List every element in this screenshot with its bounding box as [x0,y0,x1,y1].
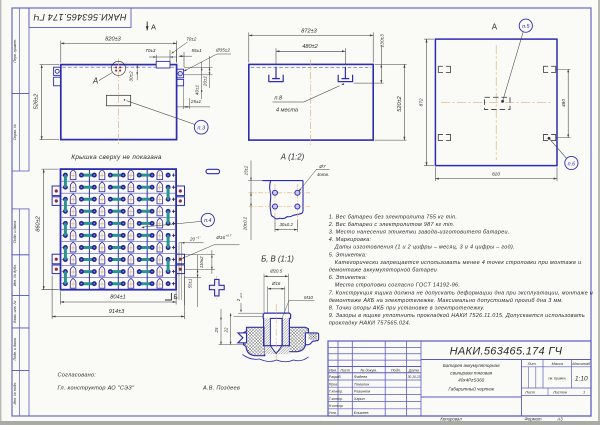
svg-text:40х4PzS360: 40х4PzS360 [458,378,484,383]
dim 480 vertical [556,68,571,70]
svg-text:Фадеев: Фадеев [354,375,367,379]
svg-text:Подп.: Подп. [391,368,401,372]
svg-text:Еникеев: Еникеев [354,411,369,415]
svg-text:Категорически запрещается испо: Категорически запрещается использовать м… [335,260,582,266]
svg-text:Даты изготовления (1 и 2 цифры: Даты изготовления (1 и 2 цифры – месяц, … [334,245,515,251]
svg-text:А3: А3 [556,417,563,422]
right rubber block [288,327,308,351]
svg-text:НАКИ.563465.174 ГЧ: НАКИ.563465.174 ГЧ [450,346,563,358]
svg-text:А: А [151,23,156,32]
svg-text:п.3: п.3 [197,126,206,132]
svg-text:Листов: Листов [552,391,567,395]
dim 820 bottom [434,167,436,181]
strap symbol cross [216,276,218,300]
svg-text:Изм.: Изм. [329,368,337,372]
svg-text:Т.контр.: Т.контр. [329,390,343,394]
dim Ф16 [267,286,269,313]
callout п.6 [565,156,578,169]
serpentine links [64,175,67,187]
svg-text:872±3: 872±3 [301,28,317,34]
svg-text:4 места: 4 места [276,108,298,114]
svg-text:6. Этикетка:: 6. Этикетка: [329,275,367,281]
svg-text:110±2: 110±2 [199,256,204,268]
svg-text:20±1: 20±1 [202,75,207,87]
svg-text:см. примеч.: см. примеч. [548,377,566,381]
svg-text:480±2: 480±2 [302,44,318,50]
left margin stamp boxes [12,8,29,94]
svg-text:4. Маркировка:: 4. Маркировка: [329,237,372,243]
dim 804±1 [60,291,62,304]
svg-text:1: 1 [583,391,585,395]
svg-text:А (1:2): А (1:2) [280,153,305,162]
svg-text:22: 22 [224,327,229,333]
dims 40±1 20±1 25±1 [184,67,213,69]
lifting hook left [275,67,277,79]
svg-text:Крышка сверху не показана: Крышка сверху не показана [71,154,162,161]
svg-text:Батарея аккумуляторная: Батарея аккумуляторная [443,363,500,368]
svg-text:+0.2: +0.2 [239,293,243,299]
svg-text:Н.контр.: Н.контр. [329,404,344,408]
svg-text:55±1: 55±1 [187,278,192,288]
svg-text:Инв. № дубл.: Инв. № дубл. [13,264,17,286]
svg-text:Подп. и дата: Подп. и дата [13,338,17,361]
svg-text:Б: Б [173,294,177,301]
svg-text:Т.контр.: Т.контр. [329,397,343,401]
dim 820±3 [60,41,62,63]
svg-text:2. Вес батареи с электролитом: 2. Вес батареи с электролитом 987 кг min… [328,222,455,228]
dims 15±2 20±0.2 [250,161,252,241]
svg-text:25: 25 [214,327,219,333]
svg-text:9. Зазоры в ящике уплотнить пр: 9. Зазоры в ящике уплотнить прокладкой Н… [329,312,585,319]
threaded bushing sleeve [265,318,290,354]
view 1: battery front view [61,65,177,140]
svg-text:820±3: 820±3 [105,37,121,43]
label rect item 3 [106,95,130,106]
svg-text:Инв. № подл.: Инв. № подл. [13,382,17,404]
svg-text:Утв.: Утв. [329,411,337,415]
svg-text:прокладку НАКИ 757565.024.: прокладку НАКИ 757565.024. [329,321,411,327]
svg-text:+1°: +1° [196,235,201,239]
left rubber block [244,327,265,355]
holes Ф7 [273,190,278,195]
dim 526±2 [40,64,60,66]
name box [421,396,522,398]
svg-text:55±1: 55±1 [192,48,203,53]
svg-text:Пров.: Пров. [329,382,338,386]
svg-text:20: 20 [189,236,195,241]
svg-text:1:10: 1:10 [575,376,588,383]
svg-text:480: 480 [561,99,567,107]
svg-text:Ø35±2: Ø35±2 [215,47,230,52]
svg-text:30±0.2: 30±0.2 [279,222,293,227]
svg-text:15±2: 15±2 [243,165,248,175]
svg-text:Справ. №: Справ. № [13,124,17,140]
svg-text:1. Вес батареи без электролита: 1. Вес батареи без электролита 755 кг mi… [329,214,458,220]
svg-text:70±2: 70±2 [186,37,197,42]
svg-text:п.6: п.6 [568,161,575,167]
svg-text:Подп. и дата: Подп. и дата [13,221,17,244]
svg-text:4отв.: 4отв. [317,172,329,177]
svg-text:п.5: п.5 [522,24,530,30]
dim 860±2 [42,168,59,170]
svg-text:Ø20.5: Ø20.5 [269,268,283,273]
dims 70±3 70±2 55±1 [155,55,157,61]
svg-text:п.8: п.8 [274,96,283,102]
svg-text:804±1: 804±1 [110,294,126,300]
dim 30±2 [136,65,138,81]
mounting brackets [52,186,60,196]
svg-text:НАКИ.563465.174 ГЧ: НАКИ.563465.174 ГЧ [33,12,127,22]
dim 872±3 [248,32,250,62]
svg-text:+0.7: +0.7 [225,234,231,238]
svg-text:Габаритный чертеж: Габаритный чертеж [448,386,495,392]
svg-text:Формат: Формат [524,417,541,422]
svg-text:Лист: Лист [339,368,350,372]
dim 914±3 [51,276,53,320]
svg-text:20±0.2: 20±0.2 [243,216,248,231]
svg-text:130±3: 130±3 [380,34,386,48]
dim 480±2 [275,48,277,64]
svg-text:Места строповки согласно ГОСТ: Места строповки согласно ГОСТ 14192-96. [335,283,460,289]
dim 30±0.2 [274,218,276,232]
svg-text:Взам. инв. №: Взам. инв. № [13,301,17,323]
svg-text:Ø7: Ø7 [318,164,326,169]
svg-text:7. Конструкция ящика должна не: 7. Конструкция ящика должна не допускать… [329,290,593,296]
svg-text:демонтаже аккумуляторной батар: демонтаже аккумуляторной батареи [329,267,437,274]
svg-text:Ø16: Ø16 [215,235,225,240]
svg-text:914±3: 914±3 [109,309,125,315]
svg-text:А: А [492,23,498,32]
svg-text:860±2: 860±2 [36,215,42,231]
marking detail circle A [111,61,125,75]
svg-text:Харин: Харин [353,397,366,401]
svg-text:А: А [92,77,98,86]
svg-text:Согласовано:: Согласовано: [58,372,97,378]
dim 520±2 [375,63,407,65]
svg-text:872: 872 [419,98,425,106]
svg-text:Лист: Лист [524,391,535,395]
svg-text:Перв. примен.: Перв. примен. [13,39,17,63]
svg-text:820: 820 [492,172,500,178]
svg-text:526±2: 526±2 [34,93,40,109]
svg-text:Лит.: Лит. [527,362,537,366]
title block [328,341,591,416]
strap symbol capsule [206,169,220,173]
callout п.5 [519,19,532,32]
svg-text:Томилин: Томилин [354,382,370,386]
svg-text:п.4: п.4 [204,218,211,224]
svg-text:30.10.23: 30.10.23 [408,375,421,379]
callout п.4 [201,213,214,226]
svg-text:Масштаб: Масштаб [572,362,591,366]
svg-text:Копировал: Копировал [440,417,462,422]
view 3: top view of lid [435,39,557,166]
right wing flange [305,333,318,345]
svg-text:А.В. Поздеев: А.В. Поздеев [202,385,240,391]
svg-text:Разраб.: Разраб. [329,375,342,379]
svg-text:3. Место нанесения этикетки за: 3. Место нанесения этикетки завода-изгот… [329,230,510,236]
svg-text:Ø16: Ø16 [271,281,281,286]
view 2: battery side view [249,64,373,140]
svg-text:70±3: 70±3 [145,48,156,53]
svg-text:свинцовая тяговая: свинцовая тяговая [450,371,492,376]
svg-text:Гл. конструктор АО "СЭЗ": Гл. конструктор АО "СЭЗ" [58,385,135,391]
inverted designation box top-left [29,8,131,28]
dim Ф20.5 [263,274,265,314]
central hatch dashed [485,97,511,109]
svg-text:25±1: 25±1 [190,99,202,104]
left wing flange [238,333,247,343]
svg-text:40±1: 40±1 [194,84,199,95]
svg-text:Дата: Дата [408,368,419,372]
svg-text:5. Этикетка:: 5. Этикетка: [329,252,367,258]
svg-text:520±2: 520±2 [397,95,403,111]
svg-text:30±2: 30±2 [129,71,134,82]
svg-text:М10: М10 [304,295,313,300]
lifting slots [438,66,443,72]
dim 872 vertical [424,38,434,40]
dim 22 and 25 [230,313,232,344]
svg-text:8. Точки опоры АКБ при установ: 8. Точки опоры АКБ при установке в элект… [329,306,485,312]
cell symbols [82,174,93,177]
svg-text:Масса: Масса [552,362,563,366]
lit massa masshtab [522,366,592,368]
svg-text:Разинков: Разинков [354,390,370,394]
svg-text:демонтаже АКБ на электротележк: демонтаже АКБ на электротележке. Максима… [329,297,564,304]
break line [243,355,309,362]
svg-text:Б, В (1:1): Б, В (1:1) [261,255,294,264]
designation box [421,359,591,361]
dim 130±3 [354,82,384,84]
section arrow A [146,22,148,31]
svg-text:№ докум.: № докум. [360,368,377,372]
view mark Б [165,293,171,300]
